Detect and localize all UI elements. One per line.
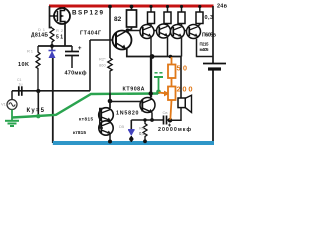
wire: speaker feed (180, 57, 182, 99)
label Ку=5 (27, 108, 45, 114)
label 82 (114, 16, 122, 23)
wire: driver emitter bus (127, 49, 181, 57)
ground (green) (5, 110, 19, 127)
label 1N5820 (116, 111, 139, 117)
svg-text:860: 860 (99, 63, 106, 68)
label D1 (38, 27, 46, 32)
svg-text:51: 51 (56, 35, 63, 41)
svg-text:кт815: кт815 (79, 117, 93, 122)
resistor R2 (51) zigzag (50, 28, 54, 45)
label 0,3 (205, 15, 214, 21)
label 200 (177, 85, 193, 94)
svg-text:КТ908А: КТ908А (123, 87, 145, 93)
svg-text:D1: D1 (38, 27, 46, 32)
wire: KT908 emitter (151, 113, 153, 121)
svg-text:Д814Б: Д814Б (31, 33, 48, 39)
source V1 (7, 91, 17, 110)
svg-text:ГТ404Г: ГТ404Г (80, 31, 101, 37)
speaker LS1 (178, 95, 192, 112)
label C3 (163, 110, 168, 115)
label КТ908А (123, 87, 145, 93)
wire: Q7-Q8 link (109, 121, 111, 123)
label R2 (56, 28, 64, 33)
node: collector/green dot (149, 91, 153, 95)
wire: +24V red top rail (49, 5, 214, 8)
label 20000мкф (158, 126, 191, 133)
label D5 (119, 124, 125, 129)
wire: Q5 emitter to bus (181, 37, 183, 57)
label R5 (139, 126, 145, 131)
wire: ground rail (cyan) (53, 141, 214, 145)
svg-text:кт815: кт815 (73, 130, 86, 136)
transistor Q1 BSP129 MOSFET (50, 7, 71, 24)
label П605 (202, 33, 216, 39)
label 860 (99, 63, 106, 68)
probe marker (green) (154, 73, 163, 94)
svg-text:470мкф: 470мкф (65, 70, 87, 77)
svg-text:C1: C1 (17, 78, 22, 82)
svg-text:10K: 10K (18, 62, 29, 68)
svg-text:м405: м405 (200, 47, 210, 52)
svg-text:R2*: R2* (99, 57, 106, 62)
node: green junction dot (36, 114, 40, 118)
svg-text:0,3: 0,3 (205, 15, 214, 21)
label Д814Б (31, 33, 48, 39)
node: bus dot (150, 54, 155, 59)
diode D5 (128, 120, 135, 142)
wiper arrow (orange) (159, 91, 170, 97)
transistor Q4 (157, 24, 171, 38)
svg-text:1N5820: 1N5820 (116, 111, 139, 117)
wire: speaker bottom to output node (170, 108, 181, 121)
resistor R9 0,3 (196, 6, 203, 26)
label BSP129 (72, 10, 103, 17)
resistor R7 (164, 6, 171, 26)
wire: MOSFET source down (64, 24, 66, 46)
svg-text:200: 200 (177, 85, 193, 94)
resistor R3 zigzag (108, 58, 112, 108)
label 470мкф (65, 70, 87, 77)
svg-text:Cв: Cв (163, 110, 168, 115)
label C1 (17, 78, 22, 82)
node: rail dot (130, 5, 134, 9)
node: collector dot (126, 28, 130, 32)
svg-text:24в: 24в (217, 4, 228, 10)
svg-text:1u: 1u (19, 83, 23, 87)
node: rail dot (149, 5, 152, 8)
label кт815 (79, 117, 93, 122)
transistor Q8 кт815 (99, 121, 113, 135)
transistor Q7 кт815 (99, 108, 114, 123)
node: rail dot (198, 5, 201, 8)
label 0,5 (139, 131, 145, 136)
node: dot on ground rail (108, 140, 112, 144)
resistor R4 82 (127, 6, 137, 31)
svg-text:D5: D5 (119, 124, 125, 129)
resistor R5 0,5 (143, 118, 147, 143)
capacitor C2 470mkf (65, 46, 82, 68)
capacitor C1 input (19, 86, 22, 96)
node: output node dot (168, 118, 173, 123)
resistor R8 (178, 6, 185, 26)
wire: base line of output quad (127, 30, 188, 32)
label 51 (56, 35, 63, 41)
svg-text:R2: R2 (56, 28, 64, 33)
svg-text:+: + (78, 46, 82, 52)
svg-text:V1: V1 (1, 102, 7, 107)
capacitor C3 20000мкф (164, 116, 172, 127)
wire: left rail drop to gate network (50, 6, 53, 28)
wire: KT908 base (110, 101, 142, 103)
wire: zener cathode down to ground rail (52, 58, 54, 143)
label ГТ404Г (80, 31, 101, 37)
wire: Q8 to ground rail (109, 134, 111, 143)
wire: kt815 chain from green net (109, 94, 111, 109)
svg-text:П605в: П605в (202, 33, 216, 39)
svg-text:П215: П215 (200, 41, 210, 46)
resistor R6 (148, 6, 155, 27)
potentiometer (orange) lower 200 (168, 78, 176, 120)
wire: node A horizontal (38, 45, 72, 47)
wire: right rail to battery (212, 6, 214, 63)
potentiometer (orange) upper 50 (168, 57, 176, 78)
svg-text:0,5: 0,5 (139, 131, 145, 136)
wire: green signal net (12, 94, 158, 118)
node: emitter dot (150, 118, 154, 122)
wire: middle rail branch x110 (109, 6, 111, 58)
node: rail dot (180, 5, 183, 8)
svg-text:82: 82 (114, 16, 122, 23)
label 1u (19, 83, 23, 87)
svg-text:Ку=5: Ку=5 (27, 108, 45, 114)
transistor Q2 ГТ404Г (113, 31, 132, 50)
transistor Q6 (187, 25, 201, 39)
label R1 (27, 49, 34, 54)
wire: GT404 base wire (90, 39, 116, 41)
label П605 2 (200, 47, 210, 52)
transistor Q3 (140, 25, 154, 39)
label 50 (177, 64, 188, 73)
diode D1 zener (49, 46, 56, 58)
node: junction dot input (36, 89, 40, 93)
transistor Q9 КТ908А (140, 98, 155, 113)
wire: input coupling net (12, 90, 90, 92)
label V1 (1, 102, 7, 107)
node: bus dot 2 (169, 55, 173, 59)
wire: battery minus down (212, 71, 214, 144)
wire: vertical to GT404 base (89, 40, 91, 91)
wire: lower output bus (131, 119, 163, 121)
wire: Q3 emitter to bus (150, 37, 152, 57)
node: junction dot (50, 44, 54, 48)
transistor Q5 (171, 25, 185, 39)
wire: KT908 collector feed (150, 57, 152, 98)
resistor R1 (10K) zigzag (36, 46, 40, 91)
label 24в (217, 4, 228, 10)
wire: input node down to green net (37, 91, 39, 116)
battery B1 24V (203, 64, 226, 70)
wire: base link Q7 Q8 (100, 109, 103, 129)
node: rail dot (166, 5, 169, 8)
node: base net dot (108, 99, 113, 104)
label 10K (18, 62, 29, 68)
label П215 (200, 41, 210, 46)
svg-text:20000мкф: 20000мкф (158, 126, 191, 133)
wire: Q4 emitter to bus (167, 36, 169, 56)
svg-text:R1: R1 (27, 49, 34, 54)
node: rail dot (108, 5, 112, 9)
label R3 (99, 57, 106, 62)
svg-text:R5: R5 (139, 126, 145, 131)
label кт815 2 (73, 130, 86, 136)
wire: Q6 emitter to battery rail (197, 39, 214, 57)
